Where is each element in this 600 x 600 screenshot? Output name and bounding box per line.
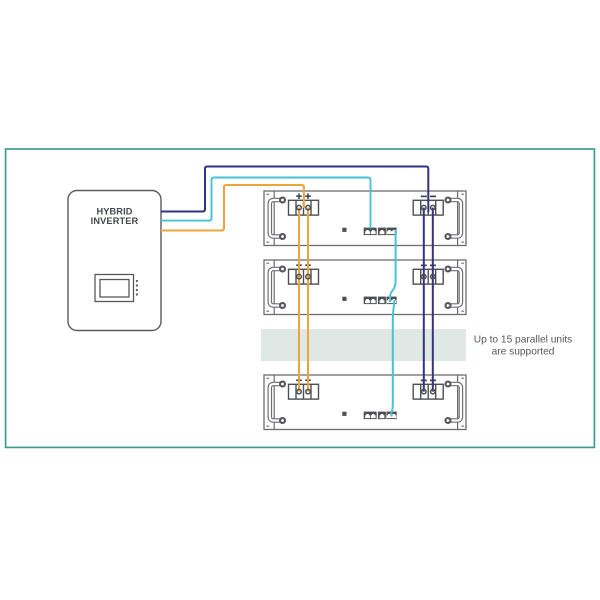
wire: battery negative bus left (navy) <box>423 208 425 392</box>
wire: comms battery 1 to battery 2 (cyan) <box>390 230 396 303</box>
battery unit 1 <box>264 191 466 246</box>
parallel units band <box>261 329 466 361</box>
outer teal frame <box>6 149 595 447</box>
svg-text:Up to 15 parallel units: Up to 15 parallel units <box>474 335 573 346</box>
battery unit 2 <box>264 260 466 315</box>
svg-text:are supported: are supported <box>492 346 555 357</box>
display buttons <box>136 280 138 282</box>
hybrid inverter U1 <box>68 191 161 331</box>
battery unit 3 <box>264 375 466 430</box>
svg-text:INVERTER: INVERTER <box>91 216 139 226</box>
wire: comms battery 2 to battery 3 (cyan) <box>392 300 395 417</box>
inverter display <box>95 275 134 302</box>
wire: battery negative bus right (navy) <box>432 208 434 392</box>
wire: battery positive bus left (orange) <box>298 208 300 392</box>
svg-text:HYBRID: HYBRID <box>96 207 132 217</box>
wire: inverter comms to battery 1 (cyan) <box>161 178 371 229</box>
wire: battery positive bus right (orange) <box>307 208 309 392</box>
terminal rings battery 1 <box>297 205 435 210</box>
wire: inverter to battery 1 positive (orange) <box>161 185 304 231</box>
wire: inverter to battery 1 negative (navy) <box>161 167 428 213</box>
terminal rings battery 3 <box>297 389 435 394</box>
terminal rings battery 2 <box>297 274 435 279</box>
